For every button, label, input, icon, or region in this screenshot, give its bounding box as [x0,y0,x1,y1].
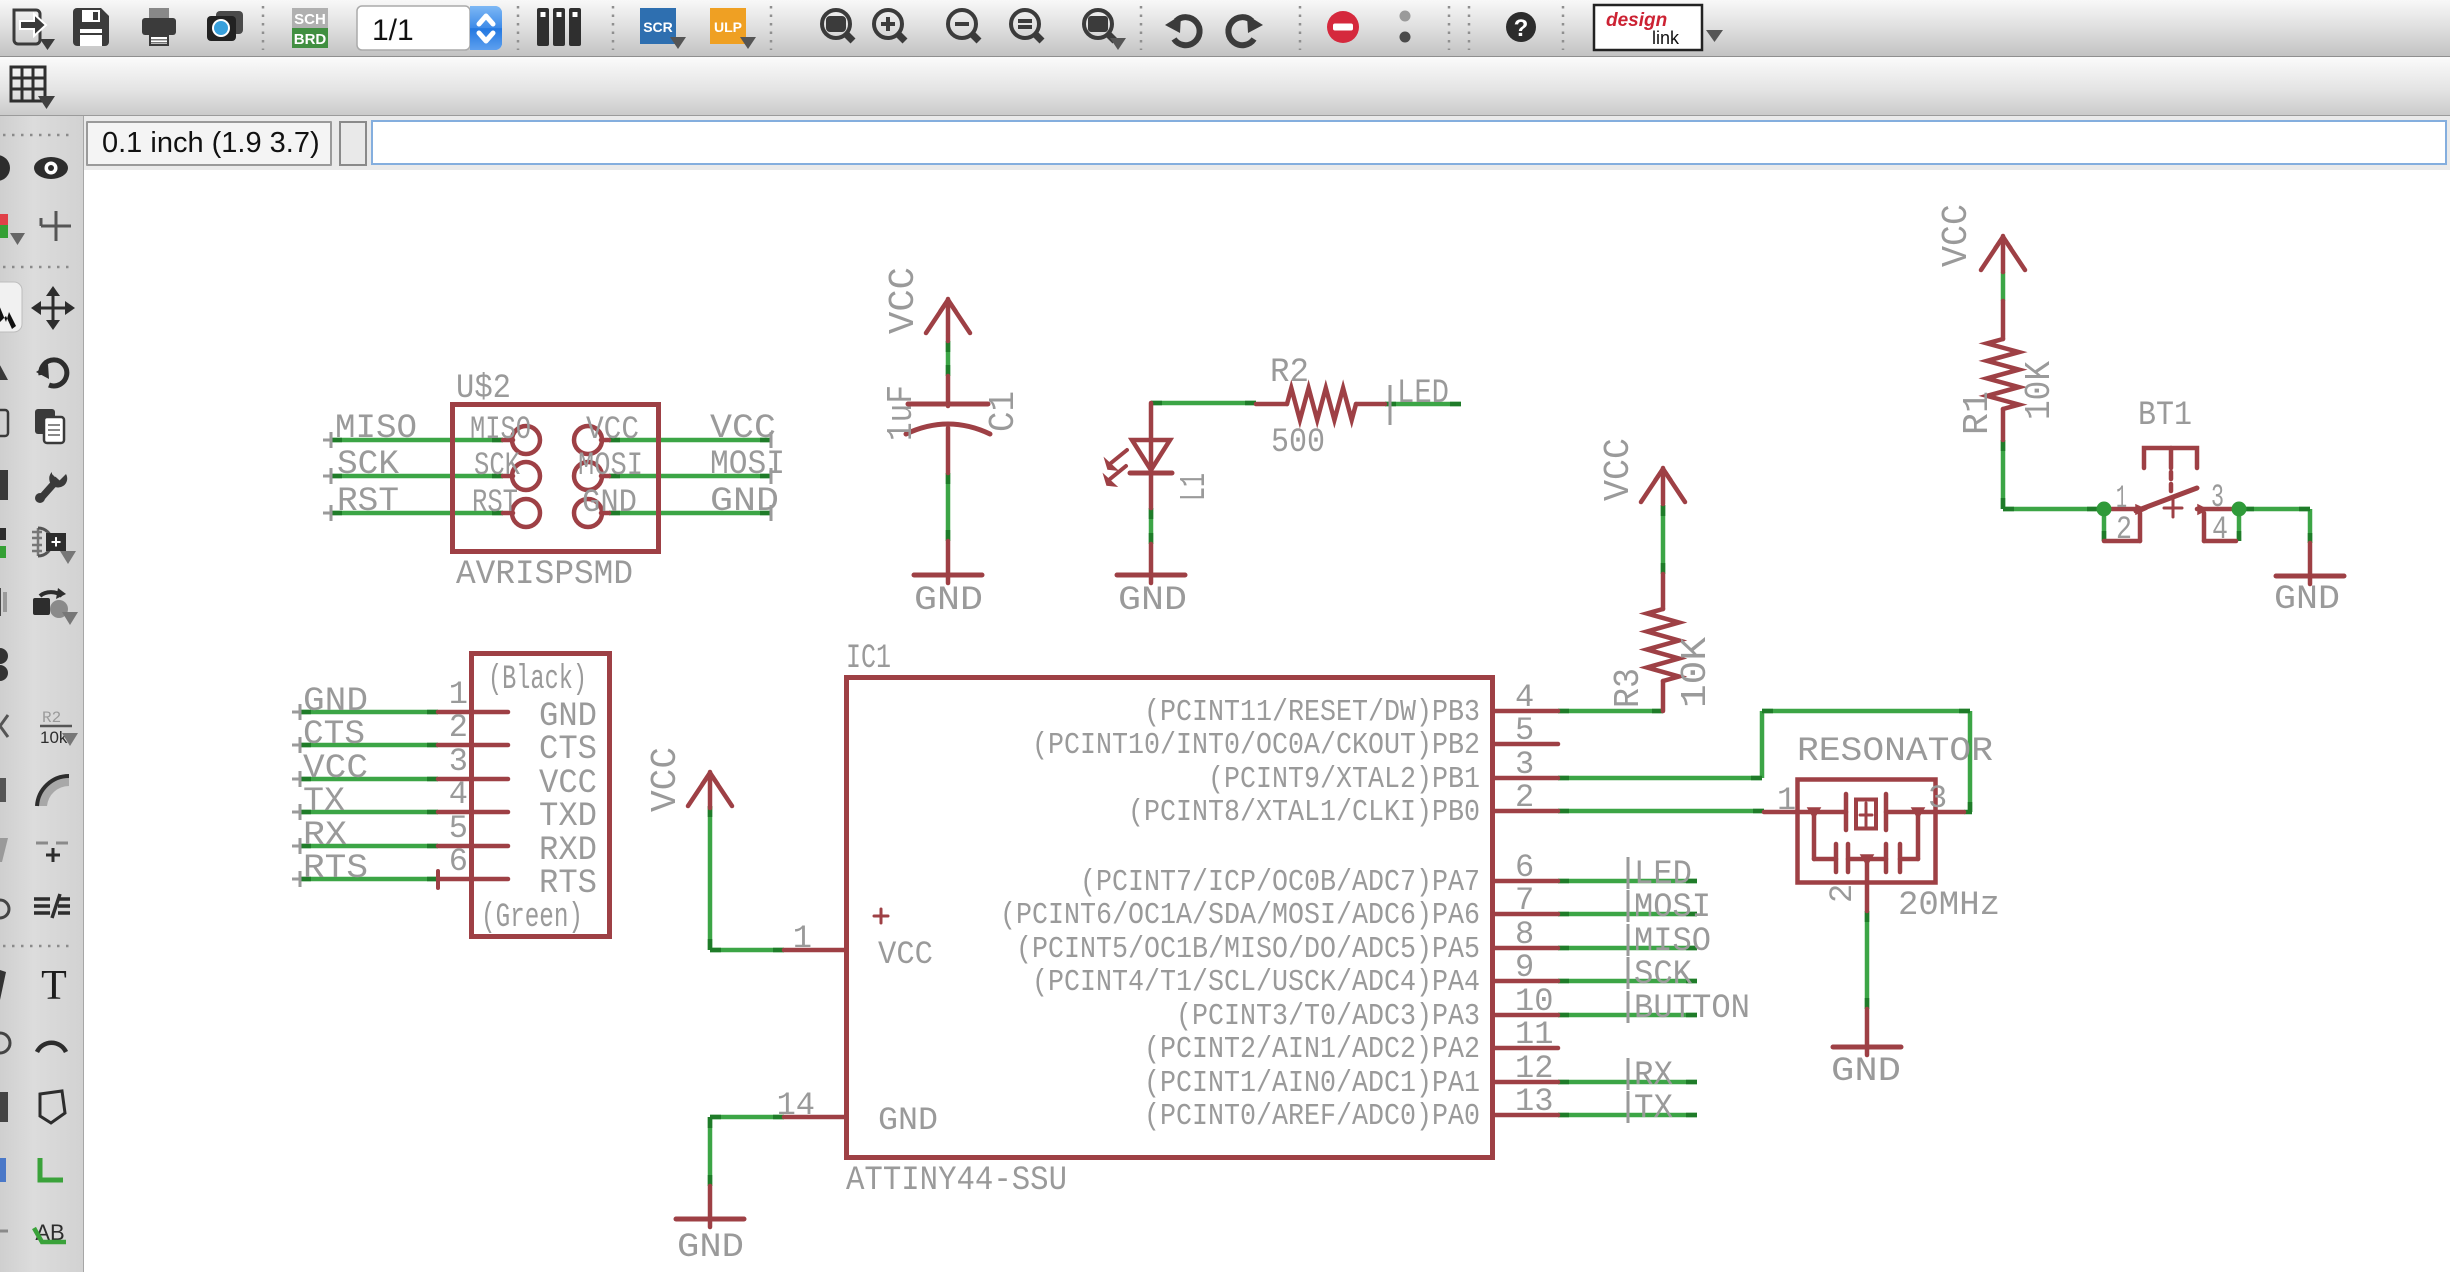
svg-text:GND: GND [878,1102,938,1139]
svg-text:BUTTON: BUTTON [1634,990,1750,1028]
svg-text:VCC: VCC [586,411,639,448]
svg-text:RST: RST [337,483,399,521]
svg-text:SCK: SCK [474,447,521,484]
svg-text:MOSI: MOSI [1634,889,1711,927]
svg-text:R1: R1 [1957,391,1998,435]
svg-text:MOSI: MOSI [710,446,785,484]
svg-text:GND: GND [677,1229,744,1267]
svg-text:(PCINT3/T0/ADC3)PA3: (PCINT3/T0/ADC3)PA3 [1176,999,1480,1034]
svg-text:SCK: SCK [337,446,400,484]
svg-text:MOSI: MOSI [578,447,643,484]
svg-text:500: 500 [1271,424,1325,462]
svg-text:2: 2 [449,709,468,746]
svg-text:(PCINT6/OC1A/SDA/MOSI/ADC6)PA6: (PCINT6/OC1A/SDA/MOSI/ADC6)PA6 [1000,898,1480,933]
svg-text:5: 5 [1515,712,1534,749]
svg-text:3: 3 [1515,746,1534,783]
svg-text:9: 9 [1515,949,1534,986]
svg-text:6: 6 [1515,849,1534,886]
svg-text:2: 2 [2116,511,2132,548]
svg-text:VCC: VCC [645,747,686,812]
svg-text:GND: GND [710,483,779,521]
svg-text:4: 4 [2212,511,2228,548]
svg-text:VCC: VCC [1598,438,1639,501]
svg-text:RTS: RTS [539,865,597,903]
svg-text:(PCINT10/INT0/OC0A/CKOUT)PB2: (PCINT10/INT0/OC0A/CKOUT)PB2 [1032,728,1480,763]
svg-text:5: 5 [449,810,468,847]
svg-text:13: 13 [1515,1083,1553,1120]
svg-text:MISO: MISO [470,411,531,448]
svg-text:10K: 10K [1675,637,1716,708]
svg-text:1: 1 [449,676,468,713]
svg-text:10: 10 [1515,983,1553,1020]
svg-text:R2: R2 [1270,354,1309,392]
svg-text:(PCINT9/XTAL2)PB1: (PCINT9/XTAL2)PB1 [1208,762,1480,797]
svg-text:ATTINY44-SSU: ATTINY44-SSU [846,1162,1067,1200]
svg-text:TXD: TXD [539,798,597,836]
svg-text:VCC: VCC [710,410,776,448]
svg-text:VCC: VCC [883,267,924,334]
svg-text:4: 4 [449,776,468,813]
svg-text:U$2: U$2 [456,370,511,408]
svg-text:(PCINT0/AREF/ADC0)PA0: (PCINT0/AREF/ADC0)PA0 [1144,1099,1480,1134]
svg-text:6: 6 [449,843,468,880]
svg-text:GND: GND [914,582,983,620]
svg-text:10K: 10K [2019,361,2060,420]
svg-text:MISO: MISO [335,410,417,448]
svg-text:1: 1 [793,920,812,957]
svg-text:8: 8 [1515,916,1534,953]
svg-text:2: 2 [1824,884,1861,903]
svg-text:L1: L1 [1174,473,1215,501]
svg-text:VCC: VCC [878,936,933,973]
svg-text:GND: GND [582,484,637,521]
svg-text:LED: LED [1397,375,1449,413]
svg-text:(Green): (Green) [481,899,583,937]
svg-text:RESONATOR: RESONATOR [1797,733,1993,771]
svg-text:3: 3 [449,743,468,780]
svg-text:C1: C1 [983,391,1024,432]
svg-text:AVRISPSMD: AVRISPSMD [456,556,633,594]
svg-text:TX: TX [1634,1090,1673,1128]
svg-text:14: 14 [777,1087,815,1124]
svg-text:3: 3 [1928,780,1947,817]
svg-text:(PCINT11/RESET/DW)PB3: (PCINT11/RESET/DW)PB3 [1144,695,1480,730]
svg-text:(Black): (Black) [488,661,587,699]
svg-text:(PCINT7/ICP/OC0B/ADC7)PA7: (PCINT7/ICP/OC0B/ADC7)PA7 [1080,865,1480,900]
svg-text:GND: GND [1118,582,1187,620]
svg-text:7: 7 [1515,882,1534,919]
svg-text:TX: TX [303,783,345,821]
svg-text:RTS: RTS [303,850,368,888]
svg-text:(PCINT5/OC1B/MISO/DO/ADC5)PA5: (PCINT5/OC1B/MISO/DO/ADC5)PA5 [1016,932,1480,967]
svg-text:12: 12 [1515,1050,1553,1087]
svg-text:1: 1 [1777,782,1796,819]
svg-text:(PCINT1/AIN0/ADC1)PA1: (PCINT1/AIN0/ADC1)PA1 [1144,1066,1480,1101]
svg-text:IC1: IC1 [846,640,891,678]
svg-text:BT1: BT1 [2138,397,2192,435]
svg-text:CTS: CTS [303,716,365,754]
svg-text:20MHz: 20MHz [1898,887,2000,925]
svg-text:1uF: 1uF [881,385,922,441]
svg-text:R3: R3 [1608,668,1649,708]
svg-text:(PCINT8/XTAL1/CLKI)PB0: (PCINT8/XTAL1/CLKI)PB0 [1128,795,1480,830]
svg-text:11: 11 [1515,1016,1553,1053]
svg-text:SCK: SCK [1634,956,1693,994]
svg-text:(PCINT2/AIN1/ADC2)PA2: (PCINT2/AIN1/ADC2)PA2 [1144,1032,1480,1067]
svg-text:2: 2 [1515,779,1534,816]
svg-text:(PCINT4/T1/SCL/USCK/ADC4)PA4: (PCINT4/T1/SCL/USCK/ADC4)PA4 [1032,965,1480,1000]
svg-text:RST: RST [472,484,518,521]
svg-text:GND: GND [2274,581,2340,619]
svg-text:VCC: VCC [1936,204,1977,267]
svg-text:GND: GND [1831,1053,1901,1091]
svg-text:CTS: CTS [539,731,597,769]
svg-text:4: 4 [1515,679,1534,716]
